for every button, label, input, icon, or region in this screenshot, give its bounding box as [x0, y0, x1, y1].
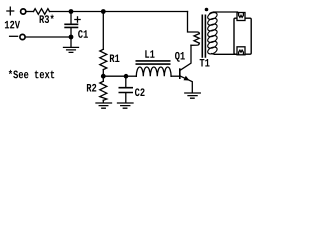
wire: L1 to Q1 base — [171, 75, 179, 77]
Q1 collector — [181, 45, 191, 70]
node: C2 top junction — [124, 74, 129, 79]
transformer T1 primary bottom lead — [191, 43, 199, 45]
label C1 — [78, 30, 88, 38]
transformer T1 primary winding — [194, 34, 199, 44]
wire: plus terminal to R3 — [26, 11, 33, 13]
inductor L1 winding — [136, 67, 171, 76]
fluorescent lamp tube — [234, 18, 251, 54]
wire: secondary top to lamp — [214, 11, 238, 13]
label T1 — [200, 59, 210, 67]
transistor Q1 — [179, 68, 181, 79]
wire: C2 node to L1 — [126, 75, 136, 77]
battery plus sign — [7, 7, 14, 15]
resistor R1 — [102, 12, 104, 50]
resistor R3 — [34, 9, 50, 15]
transformer T1 core — [202, 15, 205, 58]
label R1 — [110, 54, 120, 62]
capacitor C1 — [70, 12, 72, 24]
transformer T1 phasing dot — [205, 8, 209, 12]
ground (R2) — [96, 103, 112, 108]
wire: R3 to top rail junction — [50, 11, 188, 13]
label L1 — [145, 50, 154, 58]
capacitor C2 — [125, 76, 127, 87]
transformer T1 primary top lead — [188, 12, 200, 34]
node: C1 bottom junction — [69, 35, 74, 40]
battery minus sign — [10, 35, 18, 37]
wire: minus terminal to C1 bottom — [26, 36, 72, 38]
node: R1 top junction — [101, 9, 106, 14]
transformer T1 secondary winding — [207, 11, 219, 55]
ground (C1) — [70, 37, 72, 47]
Q1 emitter with arrow — [181, 76, 193, 92]
node A junction — [101, 74, 106, 79]
resistor R2 — [102, 76, 104, 81]
lamp bottom filament — [237, 47, 245, 55]
inductor L1 core bars — [136, 61, 171, 64]
label R3* — [40, 15, 54, 23]
C1 plus polarity mark — [75, 17, 80, 22]
battery minus terminal — [20, 34, 25, 39]
note *See text — [9, 70, 54, 78]
label Q1 — [175, 52, 185, 62]
label C2 — [135, 88, 145, 96]
node: C1 top junction — [69, 9, 74, 14]
ground (Q1 emitter) — [185, 93, 201, 98]
battery plus terminal — [21, 9, 26, 14]
label 12V — [5, 21, 20, 29]
lamp top filament — [237, 13, 245, 21]
wire: node A to C2 node — [103, 75, 126, 77]
wire: secondary bottom to lamp — [215, 53, 239, 55]
label R2 — [87, 84, 96, 92]
ground (C2) — [118, 103, 134, 108]
